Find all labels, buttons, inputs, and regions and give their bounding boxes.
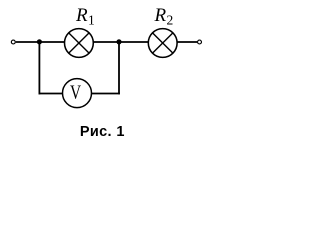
- svg-text:Рис. 1: Рис. 1: [80, 124, 125, 140]
- svg-text:R2: R2: [154, 5, 174, 27]
- svg-text:V: V: [70, 80, 81, 103]
- svg-text:R1: R1: [75, 5, 95, 27]
